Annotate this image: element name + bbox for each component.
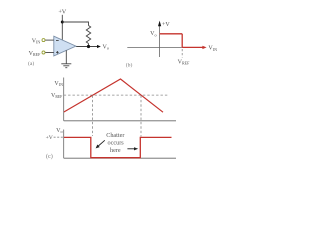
VIN input terminal	[42, 39, 45, 42]
svg-text:Chatter: Chatter	[106, 132, 124, 139]
dashed crossing line 2	[140, 96, 142, 137]
red arrowhead VIN axis	[202, 46, 206, 49]
wire: VIN terminal to inverting input	[45, 39, 54, 41]
svg-text:VREF: VREF	[29, 51, 41, 57]
svg-text:Vo: Vo	[56, 128, 62, 134]
output node dot	[87, 45, 90, 48]
svg-text:(b): (b)	[126, 62, 133, 69]
svg-text:+V: +V	[162, 22, 170, 28]
svg-text:VIN: VIN	[208, 46, 217, 52]
vertical axis arrowhead	[158, 21, 161, 27]
VREF dashed level line	[64, 94, 168, 96]
dashed +V level tick	[54, 136, 64, 138]
non-inverting input plus sign	[56, 51, 59, 53]
svg-text:(c): (c)	[46, 153, 53, 160]
wire: junction to resistor top	[62, 22, 88, 26]
arrowhead to Vo	[97, 45, 101, 48]
red square wave Vo	[64, 137, 172, 157]
wire: op-amp output to Vo arrow	[76, 46, 98, 48]
svg-text:occurs: occurs	[108, 140, 125, 147]
lower waveform time axis	[64, 157, 176, 159]
chatter arrow to falling edge	[98, 140, 105, 146]
wire: +V down to op-amp top edge	[61, 15, 63, 40]
vertical axis	[159, 24, 161, 58]
lower waveform vertical axis	[63, 130, 65, 159]
svg-text:VIN: VIN	[54, 81, 63, 87]
svg-text:VREF: VREF	[178, 59, 190, 65]
svg-text:(a): (a)	[28, 60, 34, 67]
resistor R (pull-up)	[86, 26, 90, 44]
svg-text:Vo: Vo	[150, 31, 156, 37]
VREF input terminal	[42, 51, 45, 54]
red step down at VREF	[181, 34, 183, 48]
horizontal axis	[127, 46, 203, 48]
upper waveform vertical axis	[63, 78, 65, 121]
chatter arrow to rising edge	[127, 148, 134, 150]
svg-text:VIN: VIN	[32, 38, 41, 44]
dashed line to VREF	[181, 49, 183, 58]
op-amp U1	[54, 36, 76, 56]
red output low level	[182, 46, 203, 48]
wire: resistor bottom to output node	[88, 44, 90, 47]
wire: op-amp to ground	[65, 50, 67, 64]
svg-text:+V: +V	[46, 135, 53, 141]
svg-text:here: here	[110, 147, 121, 154]
junction dot at +V branch	[61, 21, 64, 24]
red triangle wave VIN	[64, 79, 163, 112]
inverting input minus sign	[56, 39, 59, 41]
svg-text:Vo: Vo	[103, 44, 109, 50]
svg-text:+V: +V	[58, 9, 66, 16]
dashed crossing line 1	[92, 96, 94, 137]
ground	[61, 63, 71, 65]
wire: VREF terminal to non-inverting input	[45, 52, 54, 54]
upper waveform time axis	[64, 120, 176, 122]
red output high level	[160, 33, 183, 35]
